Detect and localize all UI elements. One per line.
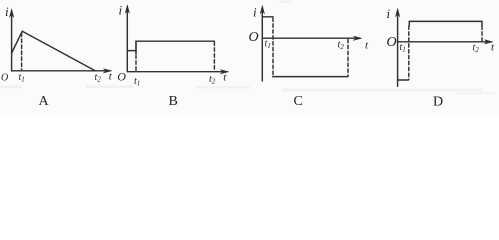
graph C y-axis (i axis) (261, 9, 263, 82)
graph D x-axis (t axis) (398, 41, 490, 43)
svg-text:i: i (119, 3, 123, 18)
svg-text:C: C (294, 94, 303, 109)
graph C positive current level 0..t1 (262, 16, 273, 18)
graph A x-axis (t axis) (12, 70, 109, 72)
graph B y-axis (i axis) (126, 8, 128, 72)
graph B x-axis arrowhead (220, 70, 228, 74)
graph B jump at t1 (135, 41, 137, 53)
graph D positive current level t1..t2 (409, 20, 482, 22)
graph D corner stub at t1 top (408, 21, 410, 25)
graph D dashed line at t1 (408, 26, 410, 80)
graph C x-axis arrowhead (353, 36, 361, 40)
graph A dashed line at t1 (21, 33, 23, 70)
graph B low current level 0..t1 (127, 50, 136, 52)
svg-text:D: D (433, 95, 443, 110)
graph B x-axis (t axis) (127, 71, 225, 73)
graph C y-axis arrowhead (260, 6, 264, 14)
graph A y-axis arrowhead (10, 9, 14, 17)
graph A x-axis arrowhead (103, 69, 111, 73)
graph D x-axis arrowhead (485, 40, 493, 44)
graph B dashed line at t1 (135, 55, 137, 71)
paper background (0, 0, 499, 115)
graph D negative current level 0..t1 (398, 79, 409, 81)
graph D dashed line at t2 (481, 26, 483, 41)
svg-text:O: O (1, 73, 8, 84)
graph A triangle falling edge (22, 31, 95, 70)
svg-text:i: i (253, 5, 257, 20)
svg-text:B: B (169, 94, 178, 109)
graph C negative current level t1..t2 (273, 76, 348, 78)
svg-text:A: A (39, 94, 50, 109)
graph B dashed line at t2 (213, 42, 215, 71)
svg-text:O: O (387, 35, 397, 50)
graph B high current level t1..t2 (136, 40, 214, 42)
graph A y-axis (i axis) (11, 12, 13, 72)
svg-text:i: i (387, 6, 391, 21)
graph D y-axis (i axis) (397, 12, 399, 86)
svg-text:O: O (117, 70, 126, 84)
graph D y-axis arrowhead (396, 9, 400, 17)
graph C dashed line at t2 (347, 40, 349, 76)
graph A triangle rising edge (12, 31, 22, 52)
graph C dashed line at t1 (272, 18, 274, 76)
svg-text:i: i (5, 4, 9, 19)
graph D corner stub at t2 top (481, 21, 483, 25)
graph B y-axis arrowhead (125, 5, 129, 13)
graph C x-axis (t axis) (262, 37, 358, 39)
svg-text:O: O (249, 30, 259, 45)
